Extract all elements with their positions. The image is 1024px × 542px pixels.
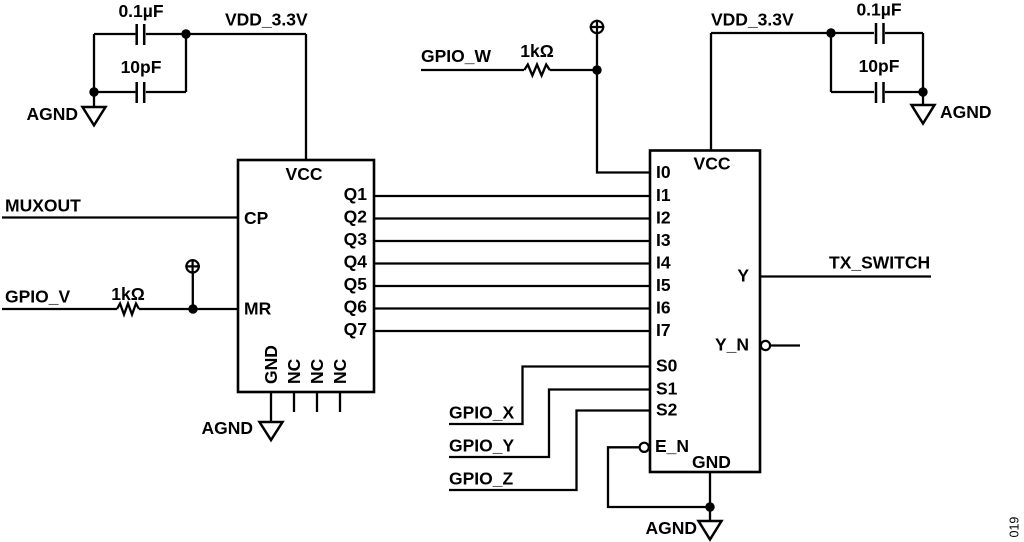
wire Q4 to I4 (374, 262, 650, 264)
wire: right cap left vertical (830, 33, 832, 92)
node junction right cap bottom (918, 87, 927, 96)
capacitor 0.1uF (left) (137, 24, 145, 45)
svg-text:1kΩ: 1kΩ (111, 284, 145, 304)
wire Y_N stub (770, 344, 800, 346)
wire: NC stub 1 (293, 392, 295, 412)
wire: test point stub (GPIO_W) (596, 34, 598, 70)
svg-text:Q2: Q2 (344, 207, 368, 227)
svg-text:Q1: Q1 (344, 184, 368, 204)
svg-text:GPIO_Z: GPIO_Z (449, 469, 513, 489)
svg-text:0.1µF: 0.1µF (118, 1, 163, 21)
svg-text:TX_SWITCH: TX_SWITCH (829, 253, 930, 273)
wire: left cap right vertical (185, 34, 187, 92)
wire: right decoupling bottom rail (831, 91, 923, 93)
svg-text:I5: I5 (656, 275, 671, 295)
svg-text:E_N: E_N (655, 436, 689, 456)
svg-text:MR: MR (244, 299, 272, 319)
wire GPIO_Y to S1 (449, 390, 650, 458)
svg-text:AGND: AGND (645, 518, 697, 538)
wire Q3 to I3 (374, 240, 650, 242)
wire U2 GND pin down (709, 472, 711, 522)
node junction GND net (705, 502, 714, 511)
wire: GPIO_W to resistor (421, 69, 524, 71)
svg-text:I2: I2 (656, 208, 671, 228)
wire: left cap left vertical (93, 34, 95, 92)
svg-text:NC: NC (307, 358, 327, 384)
svg-text:GPIO_W: GPIO_W (421, 46, 491, 66)
node junction MR net (188, 304, 197, 313)
svg-text:Q7: Q7 (344, 319, 367, 339)
svg-text:GPIO_X: GPIO_X (449, 403, 514, 423)
capacitor 10pF (right) (876, 82, 884, 103)
svg-text:I3: I3 (656, 230, 671, 250)
svg-text:0.1µF: 0.1µF (856, 0, 901, 20)
svg-text:I7: I7 (656, 320, 671, 340)
svg-text:GND: GND (692, 452, 731, 472)
svg-text:Q4: Q4 (344, 252, 368, 272)
wire: U1 GND pin stub (270, 392, 272, 423)
svg-text:I1: I1 (656, 185, 671, 205)
wire: left decoupling top rail (94, 33, 306, 35)
svg-text:019: 019 (1008, 517, 1022, 538)
wire Q5 to I5 (374, 285, 650, 287)
wire: resistor to MR (139, 308, 238, 310)
svg-text:Y_N: Y_N (715, 335, 749, 355)
wire E_N to GND net (608, 447, 710, 507)
node junction right cap top (826, 28, 835, 37)
wire Q1 to I1 (374, 195, 650, 197)
svg-text:Q5: Q5 (344, 274, 368, 294)
svg-text:S0: S0 (656, 356, 678, 376)
svg-text:1kΩ: 1kΩ (520, 41, 554, 61)
wire: right decoupling top rail (711, 32, 923, 34)
ground AGND (top-right) (912, 92, 935, 124)
svg-text:S1: S1 (656, 379, 678, 399)
ground AGND (top-left) (83, 92, 106, 125)
svg-text:Q6: Q6 (344, 297, 368, 317)
node junction left cap bottom (89, 87, 98, 96)
wire Y to TX_SWITCH (760, 275, 931, 277)
svg-text:GND: GND (261, 345, 281, 384)
svg-text:VCC: VCC (694, 154, 731, 174)
svg-text:NC: NC (330, 358, 350, 384)
svg-text:10pF: 10pF (121, 57, 162, 77)
wire: right cap right vertical (922, 33, 924, 92)
svg-text:NC: NC (284, 358, 304, 384)
wire Q7 to I7 (374, 330, 650, 332)
svg-text:10pF: 10pF (859, 56, 900, 76)
svg-text:GPIO_Y: GPIO_Y (449, 436, 514, 456)
wire GPIO_X to S0 (449, 367, 650, 425)
svg-text:AGND: AGND (201, 418, 253, 438)
ground AGND (below U1) (260, 422, 283, 440)
capacitor 0.1uF (right) (876, 23, 884, 44)
wire: left decoupling bottom rail (94, 91, 186, 93)
wire GPIO_Z to S2 (449, 411, 650, 491)
svg-text:I0: I0 (656, 162, 671, 182)
wire: NC stub 3 (339, 392, 341, 412)
capacitor 10pF (left) (137, 82, 145, 103)
op-amp U1 body (counter IC) (238, 160, 374, 392)
svg-text:MUXOUT: MUXOUT (5, 196, 81, 216)
svg-text:I6: I6 (656, 298, 671, 318)
svg-text:Y: Y (737, 266, 749, 286)
pin bubble E_N (640, 443, 649, 452)
svg-text:CP: CP (244, 208, 269, 228)
test point (GPIO_W net) (590, 20, 605, 35)
svg-text:VCC: VCC (286, 164, 323, 184)
node junction left cap top (181, 29, 190, 38)
resistor 1k (GPIO_W) (524, 65, 549, 76)
svg-text:AGND: AGND (26, 104, 78, 124)
test point (GPIO_V net) (185, 259, 200, 274)
wire: VDD to U2 VCC (710, 33, 712, 151)
resistor 1k (GPIO_V) (117, 304, 139, 315)
wire: GPIO_W net down to I0 (597, 70, 650, 173)
wire: GPIO_V to resistor (2, 308, 117, 310)
node junction GPIO_W net (592, 65, 601, 74)
svg-text:Q3: Q3 (344, 229, 368, 249)
wire Q2 to I2 (374, 217, 650, 219)
ground AGND (below U2) (699, 521, 722, 540)
wire: resistor to I0 junction (550, 69, 597, 71)
op-amp U2 body (multiplexer IC) (650, 151, 760, 473)
svg-text:GPIO_V: GPIO_V (5, 287, 70, 307)
wire: VDD to U1 VCC (305, 34, 307, 160)
svg-text:VDD_3.3V: VDD_3.3V (711, 10, 794, 30)
wire: test point stub (GPIO_V) (192, 274, 194, 310)
wire: MUXOUT to CP (2, 216, 238, 218)
wire Q6 to I6 (374, 307, 650, 309)
svg-text:AGND: AGND (940, 102, 992, 122)
svg-text:S2: S2 (656, 400, 678, 420)
pin bubble Y_N (761, 341, 770, 350)
svg-text:VDD_3.3V: VDD_3.3V (225, 10, 308, 30)
svg-text:I4: I4 (656, 253, 671, 273)
wire: NC stub 2 (316, 392, 318, 412)
